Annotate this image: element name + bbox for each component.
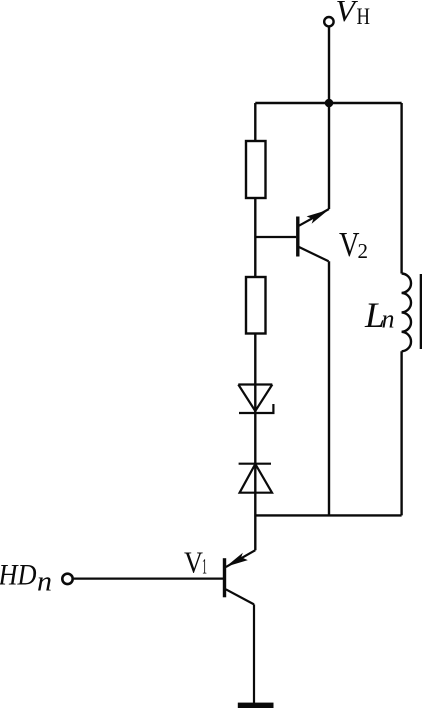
wire: left vertical chain (R1, R2, diodes) down to V1 collector (254, 103, 256, 550)
svg-text:n: n (382, 304, 395, 333)
transistor V2 (255, 209, 329, 261)
diode D2 (cathode up, anode down) (239, 464, 272, 493)
svg-text:H: H (357, 4, 371, 29)
svg-text:2: 2 (358, 239, 369, 263)
terminal HDn (62, 574, 72, 584)
junction dot (325, 99, 334, 108)
wire: right branch bottom (400, 351, 402, 515)
diode D1 (anode up, cathode down, bent cathode bar) (238, 385, 273, 414)
svg-text:n: n (37, 567, 52, 598)
wire: right branch top (to inductor) (400, 103, 402, 274)
svg-text:V: V (339, 225, 360, 264)
inductor core bar (420, 274, 422, 349)
inductor Ln coil (402, 274, 411, 352)
wire: VH terminal drop and V2 emitter vertical (328, 27, 330, 210)
terminal VH (324, 17, 333, 26)
svg-text:1: 1 (202, 553, 207, 578)
transistor V1 (74, 550, 256, 703)
ground (238, 703, 274, 708)
resistor R2 (246, 277, 266, 334)
wire: V2 collector vertical (328, 261, 330, 515)
svg-text:HD: HD (0, 559, 37, 592)
svg-text:V: V (184, 544, 204, 579)
wire: top horizontal rail (255, 102, 401, 104)
resistor R1 (246, 141, 266, 198)
svg-text:V: V (336, 0, 359, 28)
wire: bottom horizontal rail (255, 514, 401, 516)
